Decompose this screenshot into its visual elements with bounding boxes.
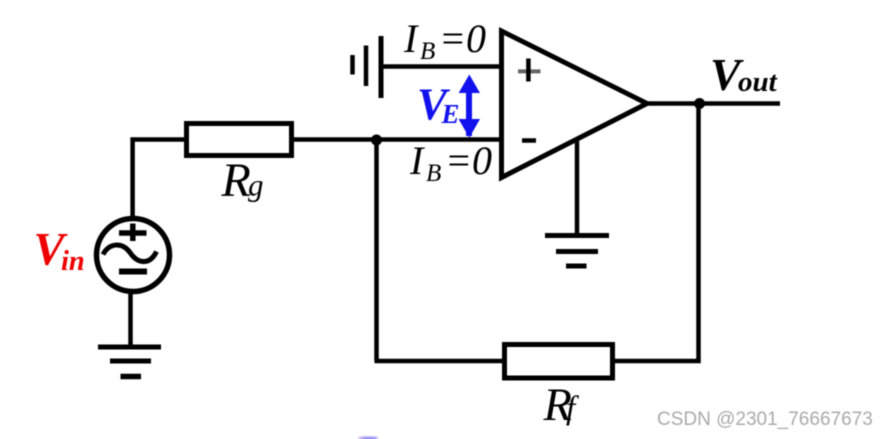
label Rf bbox=[543, 380, 580, 431]
wire op-amp to ground bbox=[575, 141, 580, 236]
wire feedback left bbox=[375, 359, 505, 364]
voltage source V1 bbox=[97, 219, 170, 292]
node inverting junction bbox=[371, 135, 382, 146]
label IB=0 bottom bbox=[409, 138, 492, 187]
wire node down to feedback bbox=[374, 140, 379, 361]
resistor Rg bbox=[187, 124, 292, 156]
node output junction bbox=[694, 98, 705, 109]
svg-text:R: R bbox=[221, 154, 251, 207]
svg-text:in: in bbox=[61, 246, 85, 277]
wire feedback right vertical bbox=[615, 104, 699, 362]
svg-text:=0: =0 bbox=[445, 138, 492, 183]
plus terminal mark bbox=[119, 224, 147, 242]
svg-text:=0: =0 bbox=[439, 16, 486, 61]
svg-text:B: B bbox=[426, 160, 441, 187]
ground below op-amp bbox=[545, 236, 609, 267]
label VE bbox=[417, 80, 460, 130]
svg-text:I: I bbox=[409, 138, 425, 183]
svg-text:I: I bbox=[403, 16, 419, 61]
resistor Rf bbox=[505, 345, 613, 379]
voltage arrow VE bbox=[459, 75, 480, 138]
label Rg bbox=[221, 154, 264, 207]
ground sideways at noninverting input bbox=[353, 36, 382, 98]
wire ground to noninverting input bbox=[381, 64, 502, 69]
ground below Vin bbox=[98, 347, 161, 377]
op-amp U1 bbox=[502, 31, 648, 178]
minus terminal mark bbox=[119, 269, 147, 275]
wire output bbox=[645, 101, 780, 106]
wire Vin to ground bbox=[128, 294, 133, 348]
svg-text:CSDN @2301_76667673: CSDN @2301_76667673 bbox=[657, 409, 873, 430]
minus input symbol bbox=[522, 138, 536, 143]
wire Rg to inverting input bbox=[291, 137, 502, 142]
label Vin bbox=[34, 225, 85, 278]
svg-text:out: out bbox=[738, 66, 778, 98]
svg-text:g: g bbox=[248, 168, 264, 203]
plus input symbol bbox=[518, 59, 541, 82]
label Vout bbox=[710, 49, 778, 100]
svg-text:E: E bbox=[441, 99, 460, 129]
svg-text:B: B bbox=[420, 38, 435, 65]
label IB=0 top bbox=[403, 16, 486, 65]
wire Vin to Rg bbox=[133, 140, 184, 219]
